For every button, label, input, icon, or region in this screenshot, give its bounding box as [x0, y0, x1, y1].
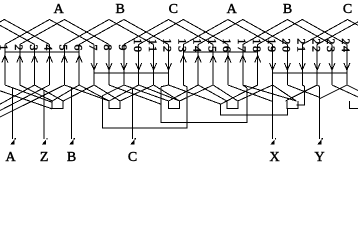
- bottom diagonal slot6 to box A left leg: [52, 85, 79, 101]
- series jumper box C2 (partial, right edge): [350, 101, 358, 109]
- terminal arrowhead Y: [317, 138, 323, 144]
- coil end connection slot22-slot4 (wrap tent, right part): [317, 22, 358, 45]
- bottom diagonal slot15 to box A2 right leg: [213, 85, 238, 101]
- slot conductor 3 (vertical): [34, 45, 36, 86]
- coil end connection slot6-slot12 (top tent): [79, 20, 168, 45]
- coil end connection slot5-slot11 (top tent): [64, 20, 153, 45]
- slot conductor 5 (vertical): [63, 45, 65, 86]
- slot conductor 4 (vertical): [49, 45, 51, 86]
- slot conductor 23 (vertical): [331, 45, 333, 86]
- terminal arrowhead C: [130, 138, 136, 144]
- terminal label Y: [314, 150, 324, 165]
- svg-text:15: 15: [205, 38, 219, 53]
- svg-text:B: B: [67, 150, 76, 163]
- group connector line slots 1-6 (top bus): [5, 51, 79, 53]
- slot conductor 9 (vertical): [123, 45, 125, 86]
- terminal lead Z (vertical): [43, 90, 45, 139]
- terminal label C: [128, 150, 137, 165]
- coil end connection slot13-slot19 (top tent): [183, 20, 272, 45]
- slot number 15: [205, 38, 219, 53]
- phase belt label B (top x=120.2): [116, 2, 125, 17]
- slot number 2: [12, 44, 26, 52]
- svg-text:19: 19: [265, 38, 279, 53]
- bottom diagonal slot22 to box B2 left leg: [285, 85, 317, 101]
- slot conductor 21 (vertical): [301, 45, 303, 86]
- slot number 8: [101, 44, 115, 52]
- slot number 13: [176, 38, 190, 53]
- bottom diagonal slot4 (wrap, exits left): [0, 85, 50, 111]
- coil end connection slot1-slot7 (top tent): [5, 20, 94, 45]
- bottom diagonal slot8 (long, to wire WB vertical): [109, 85, 161, 104]
- group connector line slots 13-18 (top bus): [183, 51, 257, 53]
- slot number 5: [57, 44, 71, 52]
- bottom diagonal slot15 to box C right leg: [180, 85, 214, 101]
- terminal arrowhead X: [270, 138, 276, 144]
- svg-text:20: 20: [280, 38, 294, 53]
- current arrow up slot 15: [210, 56, 216, 63]
- current arrow up slot 13: [180, 56, 186, 63]
- phase belt label A (top x=58.7): [54, 2, 65, 17]
- slot number 10: [131, 38, 145, 53]
- svg-text:5: 5: [57, 44, 71, 52]
- bottom diagonal slot18 to box A2 left leg (WC tap): [220, 85, 257, 104]
- slot conductor 13 (vertical): [182, 45, 184, 86]
- current arrow up slot 16: [225, 56, 231, 63]
- current arrow down slot 7: [91, 63, 97, 70]
- slot number 14: [190, 38, 204, 53]
- series jumper box B (bottom): [109, 101, 120, 109]
- group connector line slots 19-24 (bottom bus): [273, 72, 347, 74]
- bottom diagonal slot23 (wrap, exits right): [332, 85, 358, 97]
- slot conductor 18 (vertical): [257, 45, 259, 86]
- slot number 18: [250, 38, 264, 53]
- terminal label Z: [40, 150, 49, 165]
- slot number 1: [0, 44, 11, 52]
- coil end connection slot17-slot23 (top tent): [243, 20, 332, 45]
- terminal label B: [67, 150, 76, 165]
- current arrow down slot 23: [329, 63, 335, 70]
- current arrow down slot 10: [136, 63, 142, 70]
- svg-text:13: 13: [176, 38, 190, 53]
- svg-text:24: 24: [339, 38, 353, 53]
- current arrow up slot 5: [61, 56, 67, 63]
- bottom diagonal slot19 to box A2 right leg: [238, 85, 273, 101]
- bottom diagonal slot3 (wrap, exits left): [0, 85, 35, 104]
- svg-text:12: 12: [161, 38, 175, 53]
- svg-text:B: B: [116, 2, 125, 17]
- svg-text:11: 11: [146, 39, 160, 54]
- bottom diagonal slot11 to box C right leg: [154, 85, 180, 101]
- current arrow down slot 24: [344, 63, 350, 70]
- svg-text:X: X: [270, 150, 280, 163]
- svg-text:9: 9: [116, 44, 130, 52]
- phase belt label C (top x=347.5): [343, 2, 352, 17]
- svg-text:C: C: [128, 150, 137, 163]
- slot conductor 14 (vertical): [197, 45, 199, 86]
- group connector line slots 7-12 (bottom bus): [94, 72, 168, 74]
- coil end connection slot22-slot4 (wrap tent, left part): [0, 20, 50, 45]
- terminal lead X (vertical): [272, 85, 274, 139]
- bottom diagonal slot5 (wrap, exits left): [0, 85, 64, 117]
- bottom diagonal slot16 (long, to X lead): [228, 85, 273, 102]
- series jumper box B2 (bottom): [287, 101, 298, 109]
- bottom diagonal slot19 to box B2 right leg: [273, 85, 297, 101]
- current arrow down slot 9: [121, 63, 127, 70]
- bottom diagonal slot20 (long, to Y lead): [287, 85, 319, 97]
- slot conductor 11 (vertical): [153, 45, 155, 86]
- slot number 23: [324, 38, 338, 53]
- svg-text:B: B: [283, 2, 292, 17]
- slot conductor 2 (vertical): [19, 45, 21, 86]
- terminal label A: [5, 150, 16, 165]
- slot conductor 24 (vertical): [346, 45, 348, 86]
- current arrow down slot 11: [151, 63, 157, 70]
- terminal lead B (vertical): [71, 88, 73, 139]
- slot conductor 19 (vertical): [272, 45, 274, 86]
- slot conductor 12 (vertical): [168, 45, 170, 86]
- slot number 24: [339, 38, 353, 53]
- bottom diagonal slot3 to box A right leg (Z tap): [35, 85, 64, 101]
- bottom diagonal slot9 (long, C tap, to box C left leg): [124, 85, 169, 101]
- terminal lead Y bend from slot22: [317, 85, 319, 87]
- svg-text:18: 18: [250, 38, 264, 53]
- bottom diagonal slot14 to box A2 left leg: [198, 85, 227, 101]
- bottom diagonal slot24 (wrap, exits right): [347, 85, 358, 91]
- bottom diagonal slot24 to Y lead: [320, 85, 347, 99]
- bottom diagonal slot12 (long, to wire WC vertical): [169, 85, 221, 104]
- bottom diagonal slot9 to wire WA vertical: [103, 85, 124, 96]
- svg-text:16: 16: [220, 38, 234, 53]
- slot number 17: [235, 38, 249, 53]
- svg-text:A: A: [5, 150, 16, 163]
- svg-text:10: 10: [131, 38, 145, 53]
- routing wire WB (slot12 hook down, across, up to slot17 hook): [161, 87, 247, 123]
- phase belt label A (top x=231.7): [227, 2, 238, 17]
- coil end connection slot14-slot20 (top tent): [198, 20, 287, 45]
- slot number 22: [309, 38, 323, 53]
- terminal label X: [270, 150, 280, 165]
- svg-text:3: 3: [27, 44, 41, 52]
- svg-text:4: 4: [42, 44, 56, 52]
- bottom hook slot13 to wire WA vertical: [183, 85, 187, 87]
- slot number 21: [295, 38, 309, 53]
- current arrow down slot 19: [270, 63, 276, 70]
- current arrow up slot 4: [47, 56, 53, 63]
- bottom connection slot21 to box B2 (vertical hook): [296, 85, 304, 105]
- bottom hook slot17 to wire WB right vertical: [243, 85, 247, 88]
- coil end connection slot21-slot3 (wrap tent, left part): [0, 25, 35, 44]
- bottom diagonal slot1 (long, A tap, to box A left leg): [5, 85, 52, 102]
- bottom diagonal slot10 to box B left leg: [109, 85, 139, 101]
- slot conductor 17 (vertical): [242, 45, 244, 86]
- current arrow down slot 21: [299, 63, 305, 70]
- bottom diagonal slot10 to box C right leg: [139, 85, 180, 101]
- current arrow up slot 1: [2, 56, 8, 63]
- slot conductor 22 (vertical): [316, 45, 318, 86]
- slot conductor 7 (vertical): [93, 45, 95, 86]
- bottom diagonal slot7 to box B right leg: [94, 85, 120, 101]
- current arrow down slot 12: [166, 63, 172, 70]
- bottom diagonal slot6 to box B left leg: [79, 85, 109, 101]
- routing wire WC (slot18 tap down, across, up to box B2 left leg): [220, 104, 287, 115]
- current arrow up slot 6: [76, 56, 82, 63]
- svg-text:A: A: [227, 2, 238, 17]
- svg-text:Z: Z: [40, 150, 49, 163]
- bottom hook slot12 to wire WB vertical: [161, 85, 169, 87]
- slot conductor 16 (vertical): [227, 45, 229, 86]
- coil end connection slot21-slot3 (wrap tent, right part): [302, 20, 358, 45]
- coil end connection slot2-slot8 (top tent): [20, 20, 109, 45]
- slot number 7: [86, 44, 100, 52]
- svg-text:1: 1: [0, 44, 11, 52]
- phase belt label B (top x=287.5): [283, 2, 292, 17]
- svg-text:A: A: [54, 2, 65, 17]
- routing wire WA (slot13 hook down, across, up to slot9 line): [103, 87, 188, 128]
- svg-text:22: 22: [309, 38, 323, 53]
- svg-text:14: 14: [190, 38, 204, 53]
- current arrow up slot 14: [195, 56, 201, 63]
- slot conductor 20 (vertical): [286, 45, 288, 86]
- bottom diagonal slot11 to box B right leg: [120, 85, 154, 101]
- slot number 4: [42, 44, 56, 52]
- svg-text:8: 8: [101, 44, 115, 52]
- slot number 16: [220, 38, 234, 53]
- svg-text:21: 21: [295, 38, 309, 53]
- coil end connection slot9-slot15 (top tent): [124, 20, 213, 45]
- slot number 19: [265, 38, 279, 53]
- slot conductor 8 (vertical): [108, 45, 110, 86]
- terminal arrowhead Z: [42, 138, 48, 144]
- svg-text:C: C: [169, 2, 178, 17]
- terminal arrowhead A: [10, 138, 16, 144]
- bottom diagonal slot2 to box A left leg: [20, 85, 52, 101]
- terminal lead A (vertical): [12, 88, 14, 139]
- slot number 12: [161, 38, 175, 53]
- current arrow down slot 8: [106, 63, 112, 70]
- current arrow down slot 22: [314, 63, 320, 70]
- current arrow up slot 2: [17, 56, 23, 63]
- svg-text:23: 23: [324, 38, 338, 53]
- slot conductor 10 (vertical): [138, 45, 140, 86]
- series jumper box C (bottom): [169, 101, 180, 109]
- svg-text:Y: Y: [314, 150, 324, 163]
- svg-text:C: C: [343, 2, 352, 17]
- coil end connection slot10-slot16 (top tent): [139, 20, 228, 45]
- svg-text:2: 2: [12, 44, 26, 52]
- current arrow up slot 17: [240, 56, 246, 63]
- slot number 9: [116, 44, 130, 52]
- series jumper box A (bottom): [52, 101, 63, 109]
- slot number 11: [146, 39, 160, 54]
- bottom diagonal slot7 to box A right leg: [63, 85, 94, 101]
- terminal arrowhead B: [69, 138, 75, 144]
- slot number 20: [280, 38, 294, 53]
- bottom diagonal slot5 (long, B tap, to box B left leg): [64, 85, 109, 101]
- svg-text:17: 17: [235, 38, 249, 53]
- current arrow up slot 3: [32, 56, 38, 63]
- series jumper box A2 (bottom): [227, 101, 238, 109]
- bottom diagonal wrap (enters left, to box A lower left): [0, 91, 52, 109]
- slot number 3: [27, 44, 41, 52]
- current arrow down slot 20: [284, 63, 290, 70]
- slot conductor 6 (vertical): [78, 45, 80, 86]
- svg-text:7: 7: [86, 44, 100, 52]
- current arrow up slot 18: [255, 56, 261, 63]
- svg-text:6: 6: [72, 44, 86, 52]
- bottom diagonal slot17 (long, to box B2 right leg): [243, 85, 297, 101]
- slot conductor 1 (vertical): [4, 45, 6, 86]
- terminal lead Y (vertical): [319, 87, 321, 140]
- phase belt label C (top x=173.3): [169, 2, 178, 17]
- slot conductor 15 (vertical): [212, 45, 214, 86]
- bottom diagonal slot14 to box C left leg: [169, 85, 199, 101]
- terminal lead C (vertical): [132, 88, 134, 139]
- slot number 6: [72, 44, 86, 52]
- coil end connection slot18-slot24 (top tent): [258, 20, 347, 45]
